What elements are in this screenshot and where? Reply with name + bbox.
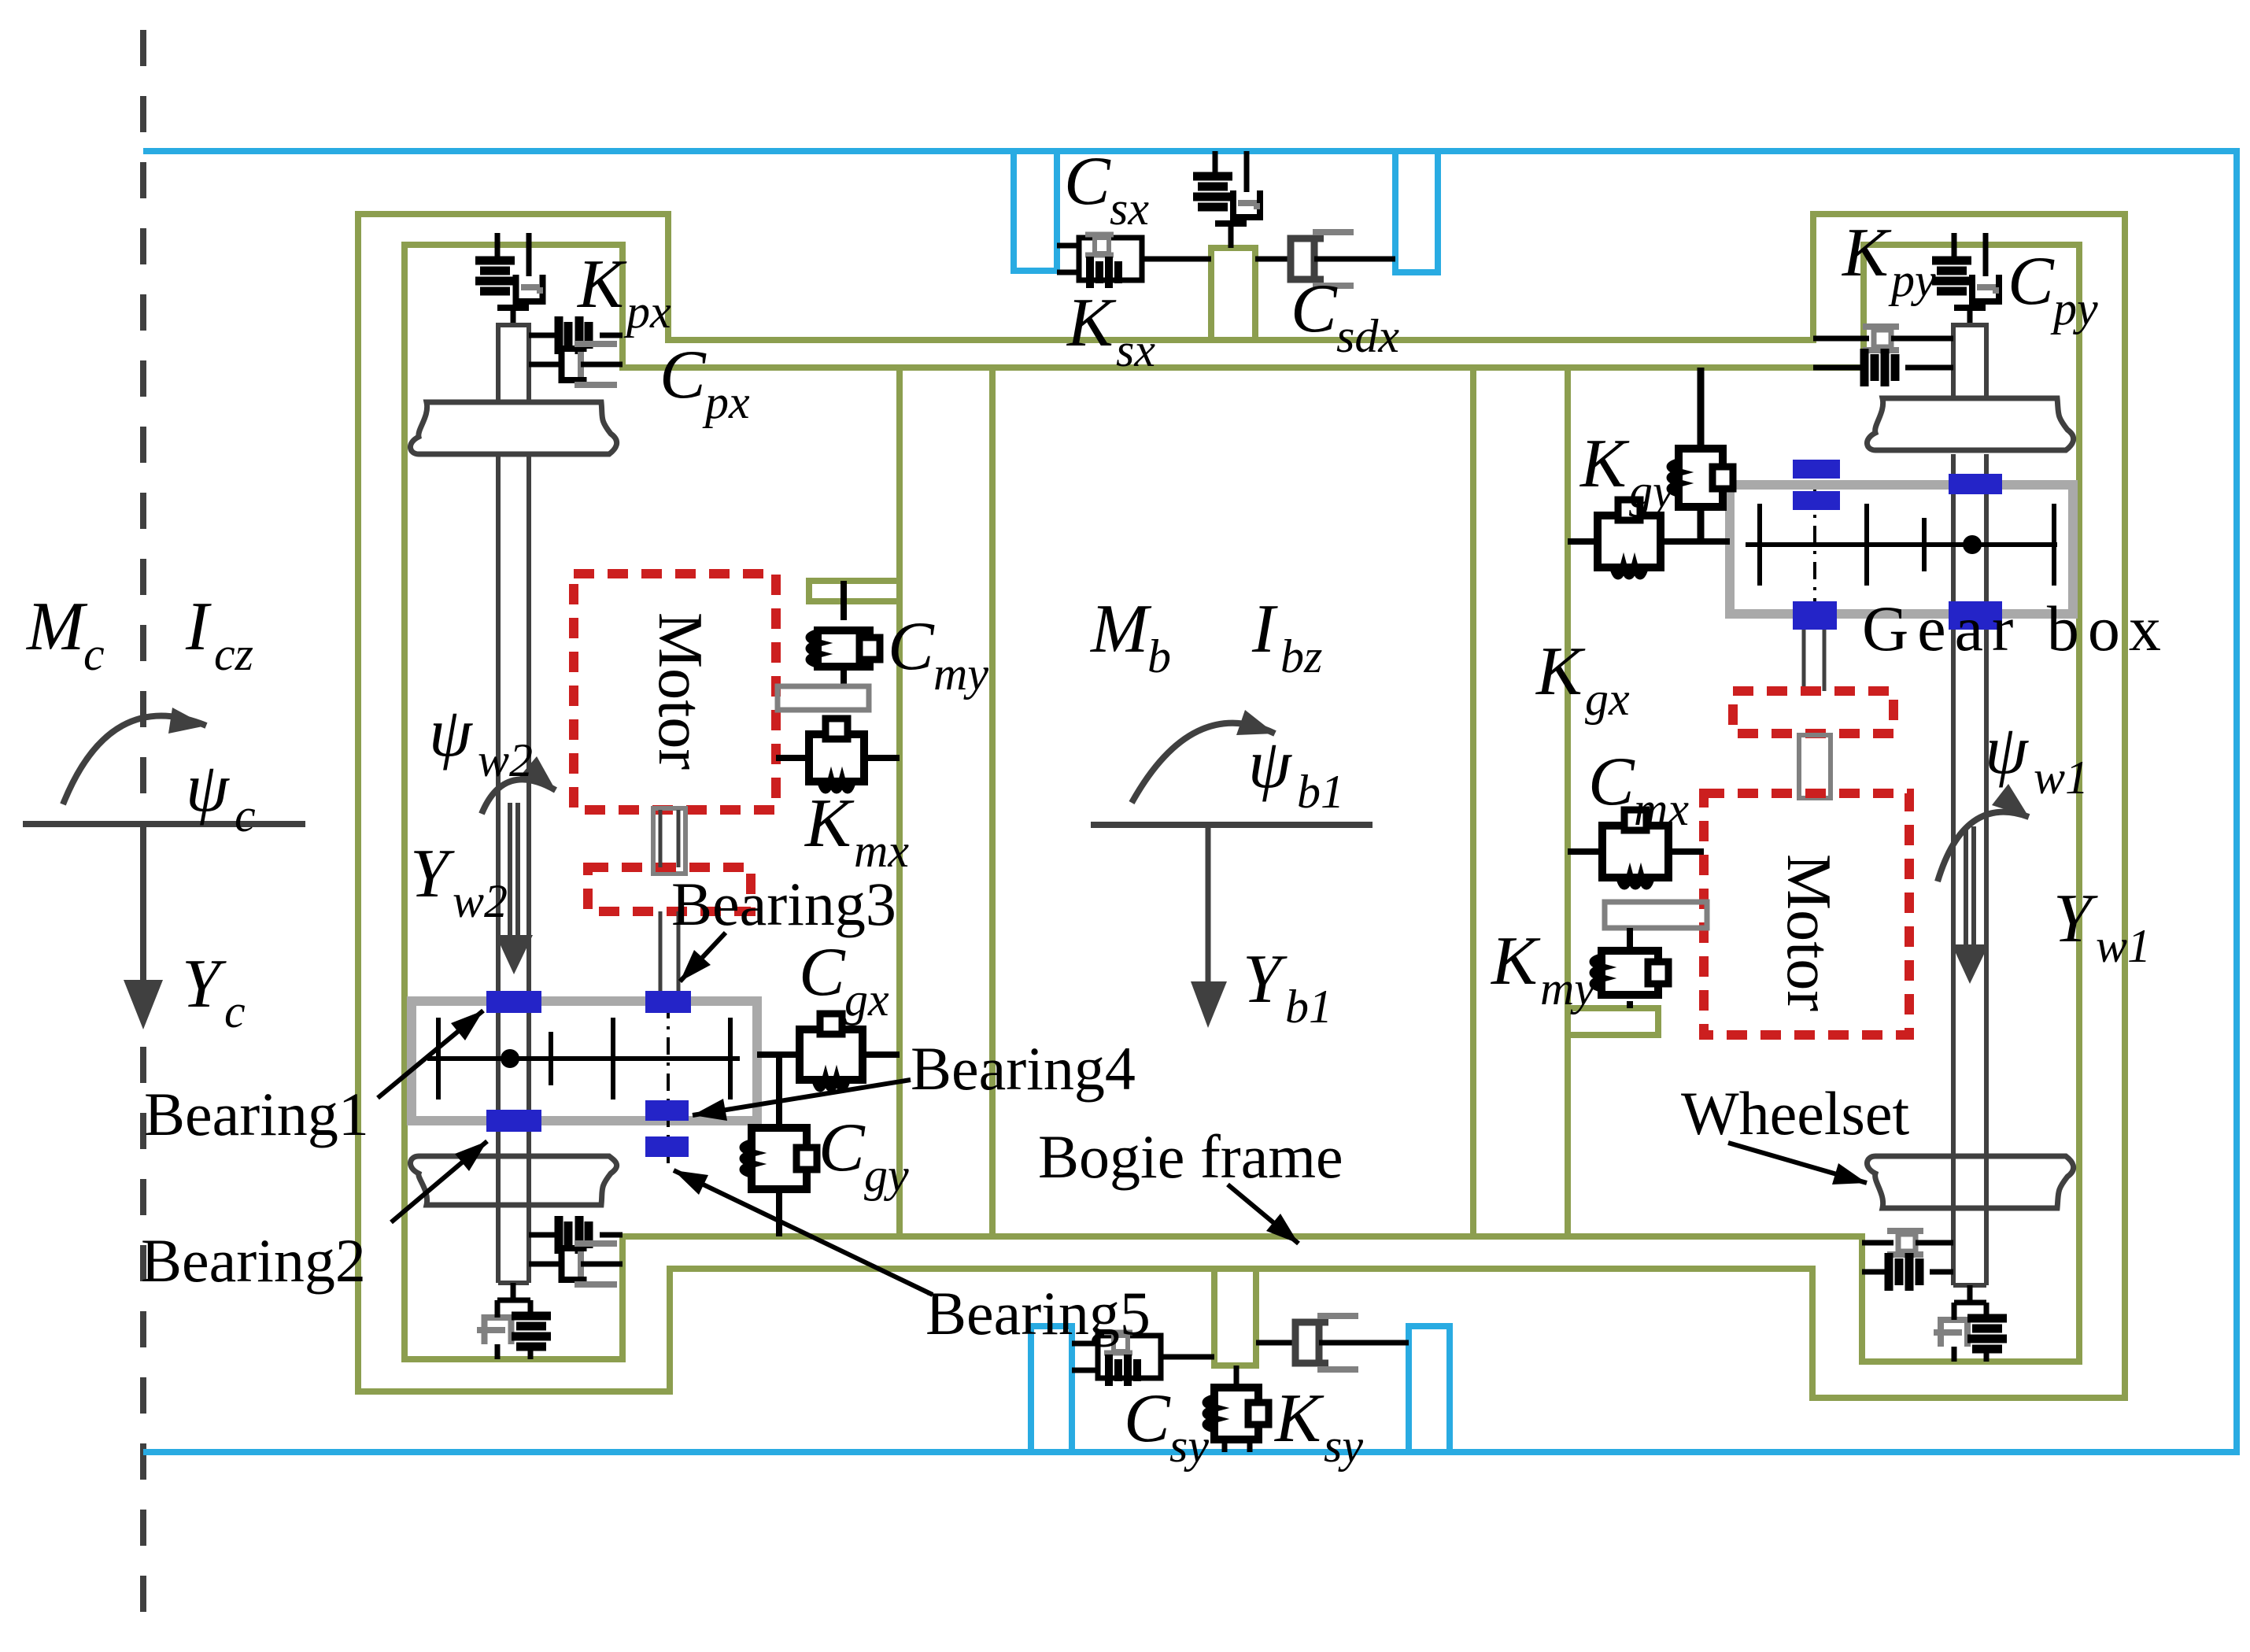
svg-text:gy: gy	[1629, 465, 1674, 517]
svg-text:Bearing3: Bearing3	[671, 870, 896, 938]
svg-text:K: K	[1535, 634, 1586, 710]
svg-text:Bearing4: Bearing4	[911, 1034, 1136, 1103]
svg-text:Motor: Motor	[1774, 854, 1843, 1011]
svg-text:sdx: sdx	[1336, 310, 1399, 362]
svg-text:w1: w1	[2096, 920, 2151, 972]
svg-text:M: M	[25, 589, 88, 665]
svg-text:b1: b1	[1285, 981, 1332, 1033]
svg-text:I: I	[1251, 591, 1278, 667]
svg-text:I: I	[185, 589, 212, 665]
svg-text:py: py	[1888, 254, 1936, 306]
svg-text:Y: Y	[410, 836, 455, 912]
svg-text:sy: sy	[1169, 1420, 1209, 1472]
svg-text:px: px	[623, 286, 671, 338]
svg-text:C: C	[1064, 143, 1111, 220]
svg-text:sy: sy	[1324, 1420, 1363, 1472]
svg-text:K: K	[1066, 285, 1117, 361]
svg-text:bz: bz	[1280, 630, 1322, 682]
svg-text:Gear box: Gear box	[1862, 593, 2170, 664]
svg-text:my: my	[933, 648, 988, 700]
svg-text:gx: gx	[844, 974, 889, 1026]
svg-text:cz: cz	[214, 628, 253, 680]
svg-text:Y: Y	[2053, 881, 2098, 957]
svg-text:b1: b1	[1297, 766, 1344, 818]
svg-text:K: K	[1579, 426, 1630, 502]
svg-text:Bogie frame: Bogie frame	[1038, 1122, 1343, 1191]
svg-text:px: px	[702, 376, 750, 428]
svg-text:c: c	[83, 628, 105, 680]
svg-text:K: K	[804, 785, 855, 862]
svg-text:w2: w2	[478, 734, 533, 786]
svg-text:sx: sx	[1116, 324, 1155, 376]
svg-text:gy: gy	[864, 1149, 909, 1201]
svg-text:ψ: ψ	[186, 750, 230, 826]
svg-text:ψ: ψ	[429, 695, 473, 771]
svg-text:Bearing5: Bearing5	[925, 1279, 1151, 1347]
svg-text:py: py	[2050, 283, 2098, 334]
svg-text:Y: Y	[1243, 941, 1288, 1018]
svg-text:w2: w2	[453, 875, 508, 927]
svg-text:K: K	[576, 246, 627, 323]
svg-text:C: C	[888, 608, 935, 685]
svg-text:C: C	[1124, 1380, 1171, 1457]
svg-text:K: K	[1490, 923, 1541, 1000]
svg-text:C: C	[659, 337, 707, 413]
svg-text:Wheelset: Wheelset	[1681, 1079, 1910, 1148]
svg-text:C: C	[1291, 271, 1338, 347]
svg-text:c: c	[224, 985, 246, 1037]
svg-text:C: C	[799, 934, 846, 1011]
svg-text:c: c	[235, 789, 256, 841]
svg-text:ψ: ψ	[1985, 712, 2029, 789]
svg-text:Motor: Motor	[645, 612, 715, 770]
svg-text:w1: w1	[2034, 752, 2089, 804]
svg-text:Y: Y	[182, 946, 227, 1022]
svg-text:C: C	[1588, 744, 1635, 820]
svg-text:sx: sx	[1110, 183, 1149, 235]
svg-text:ψ: ψ	[1248, 726, 1292, 803]
svg-text:K: K	[1273, 1380, 1325, 1457]
svg-text:K: K	[1841, 215, 1892, 291]
svg-text:Bearing2: Bearing2	[141, 1226, 366, 1295]
svg-text:M: M	[1089, 591, 1152, 667]
svg-text:C: C	[2008, 243, 2055, 320]
svg-text:my: my	[1540, 963, 1595, 1014]
svg-text:b: b	[1147, 630, 1171, 682]
svg-text:Bearing1: Bearing1	[144, 1080, 369, 1148]
svg-text:gx: gx	[1585, 673, 1630, 725]
svg-text:mx: mx	[1634, 783, 1689, 835]
svg-text:C: C	[818, 1110, 866, 1186]
